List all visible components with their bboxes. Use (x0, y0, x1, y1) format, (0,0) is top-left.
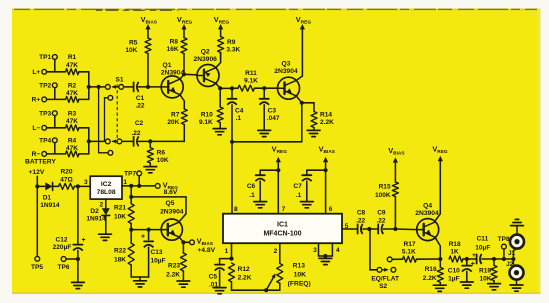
node EQ tap (367, 227, 378, 231)
label IC2 pin 2 (99, 202, 103, 209)
svg-text:IC2: IC2 (101, 181, 112, 188)
switch S1 section B alternate throw (97, 85, 113, 155)
svg-text:R20: R20 (60, 168, 72, 175)
resistor R9 3.3K (218, 37, 241, 59)
wire summing bus R (79, 128, 89, 154)
svg-text:2.2K: 2.2K (423, 275, 437, 282)
wire feedback node to IC1 pin 8 (230, 140, 302, 214)
svg-text:100K: 100K (375, 192, 391, 199)
svg-text:TP4: TP4 (39, 138, 51, 145)
svg-text:Q1: Q1 (163, 62, 172, 69)
svg-text:+: + (472, 252, 476, 259)
svg-text:9.1K: 9.1K (199, 119, 213, 126)
svg-text:R−: R− (32, 151, 41, 158)
svg-text:47Ω: 47Ω (60, 177, 73, 184)
svg-text:+4.8V: +4.8V (197, 247, 215, 254)
svg-text:2: 2 (274, 248, 278, 255)
svg-text:1N914: 1N914 (86, 216, 106, 223)
svg-text:R7: R7 (171, 111, 180, 118)
test point TP2 (39, 83, 57, 100)
resistor R2 47K (47, 83, 79, 103)
input terminal R− (32, 151, 47, 158)
svg-text:10K: 10K (157, 157, 169, 164)
svg-text:C12: C12 (55, 236, 67, 243)
jack J2 (506, 261, 523, 291)
switch S1 mechanical link (116, 85, 118, 147)
svg-text:C11: C11 (477, 235, 489, 242)
transistor Q5 2N3904 (160, 200, 184, 240)
svg-text:10K: 10K (294, 271, 306, 278)
svg-text:R1: R1 (68, 54, 77, 61)
capacitor C13 10uF (141, 228, 166, 278)
switch S1 label (115, 77, 123, 84)
svg-text:.22: .22 (376, 217, 385, 224)
node R15 bottom (393, 227, 417, 231)
transistor Q2 2N3906 (193, 48, 219, 86)
svg-text:.047: .047 (267, 115, 280, 122)
wire R12 R13 bottom (232, 288, 280, 292)
svg-text:R8: R8 (170, 38, 179, 45)
test point TP7 (124, 171, 141, 186)
svg-text:C5: C5 (209, 274, 218, 281)
terminal V_BIAS +4.8V (190, 237, 216, 254)
svg-text:D1: D1 (43, 194, 52, 201)
svg-text:R11: R11 (245, 70, 257, 77)
svg-text:R21: R21 (114, 205, 126, 212)
svg-text:R17: R17 (403, 241, 415, 248)
svg-text:47K: 47K (66, 145, 78, 152)
resistor R1 47K (47, 54, 79, 75)
svg-text:R4: R4 (68, 138, 77, 145)
svg-text:2.2K: 2.2K (238, 275, 252, 282)
supply V_BIAS arrow (R5) (141, 15, 158, 38)
label IC1 pin 5 (345, 223, 349, 230)
terminal V_REG 8.6V (155, 180, 178, 196)
resistor R22 18K (114, 230, 134, 277)
capacitor C2 .22 (122, 120, 151, 147)
wire Q5 collector rail (129, 186, 186, 221)
svg-text:TP5: TP5 (31, 264, 43, 271)
svg-text:47K: 47K (66, 118, 78, 125)
label IC1 pin 6 (329, 206, 333, 213)
svg-text:(FREQ): (FREQ) (288, 281, 311, 288)
svg-text:C2: C2 (135, 120, 144, 127)
svg-text:R16: R16 (425, 266, 437, 273)
svg-text:18K: 18K (114, 256, 126, 263)
svg-text:8.6V: 8.6V (164, 189, 178, 196)
svg-text:TP1: TP1 (39, 54, 51, 61)
svg-text:TP8: TP8 (498, 236, 510, 243)
node R19 top (492, 257, 504, 261)
svg-text:Q5: Q5 (166, 200, 175, 207)
svg-text:R5: R5 (129, 39, 138, 46)
input terminal L+ (32, 69, 46, 76)
node C4 top (230, 86, 238, 90)
svg-text:R2: R2 (68, 83, 77, 90)
svg-text:L+: L+ (32, 69, 40, 76)
svg-text:.22: .22 (135, 102, 144, 109)
svg-text:.1: .1 (236, 115, 242, 122)
resistor R18 1K (449, 241, 467, 262)
svg-text:2.2K: 2.2K (320, 119, 334, 126)
svg-text:1µF: 1µF (448, 276, 459, 283)
svg-text:R+: R+ (32, 97, 41, 104)
svg-text:.22: .22 (131, 130, 140, 137)
svg-text:C10: C10 (448, 267, 460, 274)
svg-text:R15: R15 (379, 183, 391, 190)
diode D2 1N914 (86, 199, 111, 240)
label BATTERY +12V (25, 159, 56, 177)
test point TP3 (39, 110, 57, 127)
test point TP5 (31, 186, 43, 271)
supply V_REG arrow (R9) (214, 15, 230, 37)
svg-text:TP6: TP6 (57, 264, 69, 271)
svg-text:3: 3 (84, 179, 88, 186)
resistor R14 2.2K (307, 103, 334, 137)
capacitor C12 220uF (53, 186, 86, 288)
IC IC2 78L08 (90, 176, 122, 199)
svg-text:3.3K: 3.3K (226, 47, 240, 54)
svg-text:TP7: TP7 (124, 171, 136, 178)
wire IC1 pins 3-4 ground (319, 243, 333, 264)
svg-text:+: + (141, 234, 145, 241)
svg-text:J2: J2 (506, 261, 514, 268)
wire to jacks (504, 248, 517, 269)
resistor R16 2.2K (423, 259, 446, 291)
resistor R3 47K (47, 110, 79, 130)
supply V_REG arrow (R8) (177, 15, 193, 38)
input terminal L− (32, 125, 46, 132)
supply V_BIAS arrow (R15) (388, 146, 405, 182)
resistor R8 16K (167, 38, 187, 75)
svg-text:8: 8 (234, 206, 238, 213)
svg-text:EQ/FLAT: EQ/FLAT (371, 276, 399, 283)
test point TP6 (57, 257, 80, 272)
label IC1 pin 2 (274, 248, 278, 255)
svg-text:Q3: Q3 (282, 61, 291, 68)
svg-text:20K: 20K (167, 119, 179, 126)
supply V_BIAS arrow (pin 6) (319, 145, 336, 214)
node sum1 (87, 85, 106, 89)
supply V_REG arrow (Q3) (296, 15, 312, 81)
capacitor C3 .047 (258, 88, 280, 136)
wire IC2 output rail (122, 184, 155, 188)
resistor R6 10K (144, 141, 169, 172)
capacitor C7 .1 (293, 170, 325, 208)
svg-text:.22: .22 (356, 217, 365, 224)
svg-text:16K: 16K (167, 46, 179, 53)
svg-text:C4: C4 (235, 108, 244, 115)
resistor R15 100K (375, 182, 398, 229)
svg-text:.1: .1 (249, 192, 255, 199)
svg-text:Q4: Q4 (423, 202, 432, 209)
node C3 top (262, 86, 277, 90)
svg-text:78L08: 78L08 (97, 189, 116, 196)
node R6 tap (148, 139, 184, 143)
transistor Q3 2N3904 (274, 61, 299, 100)
svg-text:R3: R3 (68, 110, 77, 117)
jack J1 (508, 219, 524, 257)
svg-text:6: 6 (329, 206, 333, 213)
capacitor C1 .22 (124, 82, 148, 110)
svg-text:+12V: +12V (29, 169, 45, 176)
wire Q4 emitter node (435, 238, 442, 261)
node Q1 base / R5 (146, 85, 162, 89)
switch S1 section B (105, 139, 121, 144)
wire R22 C13 ground (131, 277, 148, 287)
test point TP1 (39, 54, 57, 72)
svg-text:C13: C13 (151, 249, 163, 256)
svg-text:.1: .1 (296, 192, 302, 199)
svg-text:Q2: Q2 (201, 48, 210, 55)
potentiometer R13 10K FREQ (266, 243, 311, 290)
svg-text:+: + (82, 237, 86, 244)
svg-text:10K: 10K (479, 276, 491, 283)
capacitor C5 .01 (209, 259, 232, 294)
test point TP4 (39, 138, 57, 154)
resistor R23 2.2K (166, 242, 190, 287)
svg-text:2N3904: 2N3904 (415, 210, 439, 217)
svg-text:10µF: 10µF (475, 244, 490, 251)
resistor R5 10K (125, 38, 151, 87)
svg-text:MF4CN-100: MF4CN-100 (263, 230, 301, 237)
capacitor C4 .1 (227, 88, 244, 141)
svg-text:D2: D2 (90, 208, 99, 215)
resistor R10 9.1K (199, 88, 226, 134)
svg-text:3: 3 (313, 247, 317, 254)
svg-text:1: 1 (225, 248, 229, 255)
svg-text:R12: R12 (238, 266, 250, 273)
svg-text:220µF: 220µF (53, 244, 72, 251)
svg-text:4: 4 (336, 247, 340, 254)
wire Q2 emitter to R9 (216, 53, 221, 68)
resistor R19 10K (479, 259, 500, 290)
svg-text:IC1: IC1 (277, 222, 288, 229)
svg-text:R23: R23 (168, 263, 180, 270)
svg-text:2N3904: 2N3904 (274, 68, 298, 75)
input terminal R+ (32, 97, 47, 104)
resistor R21 10K (114, 204, 134, 230)
svg-text:R9: R9 (227, 39, 236, 46)
svg-text:R6: R6 (157, 150, 166, 157)
capacitor C9 .22 (376, 210, 395, 234)
svg-text:S2: S2 (379, 283, 387, 290)
svg-text:2N3906: 2N3906 (193, 56, 217, 63)
label IC2 pin 1 (123, 179, 127, 186)
resistor R12 2.2K (229, 263, 252, 290)
label IC1 pin 8 (234, 206, 238, 213)
svg-text:C1: C1 (136, 95, 145, 102)
wire Q2 collector node (216, 83, 232, 90)
wire IC1 pin 5 out (342, 228, 358, 230)
label IC1 pin 7 (282, 206, 286, 213)
svg-text:R14: R14 (320, 111, 332, 118)
IC U1 MF4CN-100 (223, 214, 342, 244)
label IC1 pin 3 (313, 247, 317, 254)
svg-text:L−: L− (32, 125, 40, 132)
wire Q1 collector (180, 72, 197, 79)
svg-text:C6: C6 (247, 183, 256, 190)
capacitor C10 1uF (448, 259, 475, 288)
svg-text:47K: 47K (66, 90, 78, 97)
diode D1 1N914 (37, 182, 60, 209)
wire battery feed (35, 176, 39, 188)
svg-text:TP2: TP2 (39, 83, 51, 90)
node sum2 (87, 139, 106, 143)
svg-text:1K: 1K (450, 249, 459, 256)
supply V_REG arrow (Q4) (432, 145, 448, 221)
switch S1 section A alternate throw (105, 95, 113, 141)
supply V_REG arrow (pin 7) (272, 145, 288, 214)
svg-text:.01: .01 (209, 281, 218, 288)
svg-text:2.2K: 2.2K (166, 272, 180, 279)
wire Q5 emitter node (179, 237, 189, 244)
svg-text:1: 1 (123, 179, 127, 186)
node C12 top (76, 184, 80, 188)
svg-text:C3: C3 (268, 108, 277, 115)
transistor Q4 2N3904 (415, 202, 439, 240)
test point TP8 (498, 236, 510, 261)
svg-text:C7: C7 (293, 183, 302, 190)
wire Q3 emitter node (296, 96, 314, 142)
node Q5 base (129, 228, 161, 232)
svg-text:R13: R13 (293, 262, 306, 269)
svg-text:C8: C8 (357, 210, 366, 217)
label IC1 pin 1 (225, 248, 229, 255)
svg-text:R10: R10 (201, 111, 213, 118)
svg-text:C9: C9 (377, 210, 386, 217)
label IC2 pin 3 (84, 179, 88, 186)
svg-text:2: 2 (99, 202, 103, 209)
switch S1 section A (105, 85, 123, 90)
resistor R4 47K (47, 138, 79, 157)
svg-text:7: 7 (282, 206, 286, 213)
resistor R11 9.1K (238, 70, 264, 91)
capacitor C11 10uF (469, 235, 494, 264)
capacitor C6 .1 (247, 170, 278, 208)
svg-text:J1: J1 (508, 250, 516, 257)
resistor R17 5.1K (387, 241, 440, 262)
svg-text:BATTERY: BATTERY (25, 159, 56, 166)
wire Q1 emitter to R7 (180, 95, 184, 109)
svg-text:R22: R22 (114, 248, 126, 255)
resistor R20 47ohm (59, 168, 91, 189)
svg-text:10K: 10K (125, 47, 137, 54)
svg-text:9.1K: 9.1K (244, 78, 258, 85)
svg-text:5.1K: 5.1K (402, 249, 416, 256)
svg-text:10µF: 10µF (151, 258, 166, 265)
svg-text:S1: S1 (115, 77, 123, 84)
svg-text:2N3904: 2N3904 (160, 209, 184, 216)
wire summing bus L (79, 72, 89, 100)
capacitor C8 .22 (356, 210, 369, 234)
wire IC1 pin 1 (229, 243, 233, 261)
label IC1 pin 4 (336, 247, 340, 254)
resistor R7 20K (167, 109, 187, 141)
svg-text:TP3: TP3 (39, 110, 51, 117)
svg-text:R18: R18 (449, 241, 461, 248)
svg-text:10K: 10K (114, 213, 126, 220)
transistor Q1 2N3904 (161, 62, 185, 98)
svg-text:1N914: 1N914 (40, 202, 60, 209)
svg-text:R19: R19 (479, 267, 491, 274)
node C10 top (465, 257, 469, 261)
switch S2 EQ/FLAT (369, 229, 399, 290)
svg-text:47K: 47K (66, 62, 78, 69)
svg-text:2N3904: 2N3904 (161, 70, 185, 77)
